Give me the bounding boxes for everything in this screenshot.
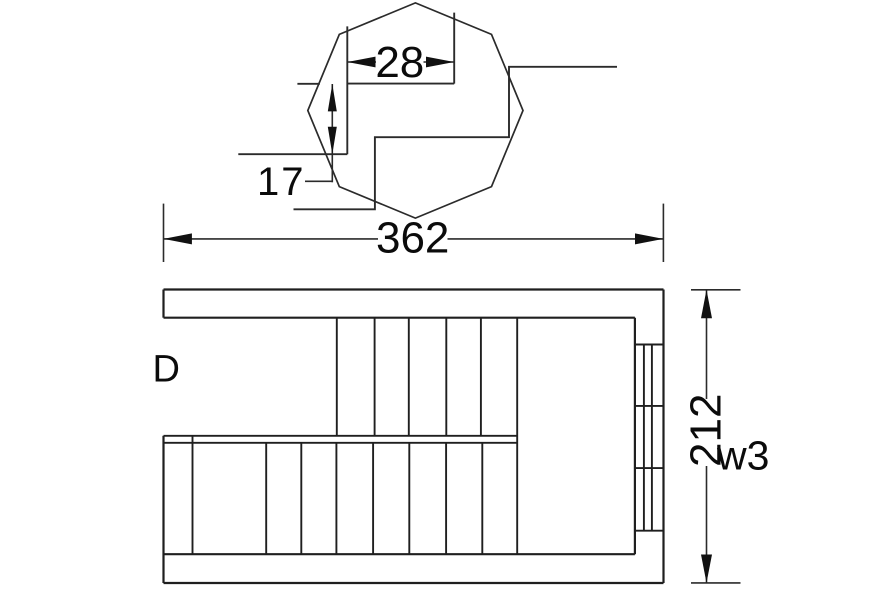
- svg-text:w3: w3: [716, 433, 769, 479]
- svg-text:17: 17: [257, 160, 306, 204]
- svg-text:28: 28: [375, 38, 424, 87]
- svg-text:D: D: [153, 349, 180, 391]
- svg-text:362: 362: [376, 214, 449, 263]
